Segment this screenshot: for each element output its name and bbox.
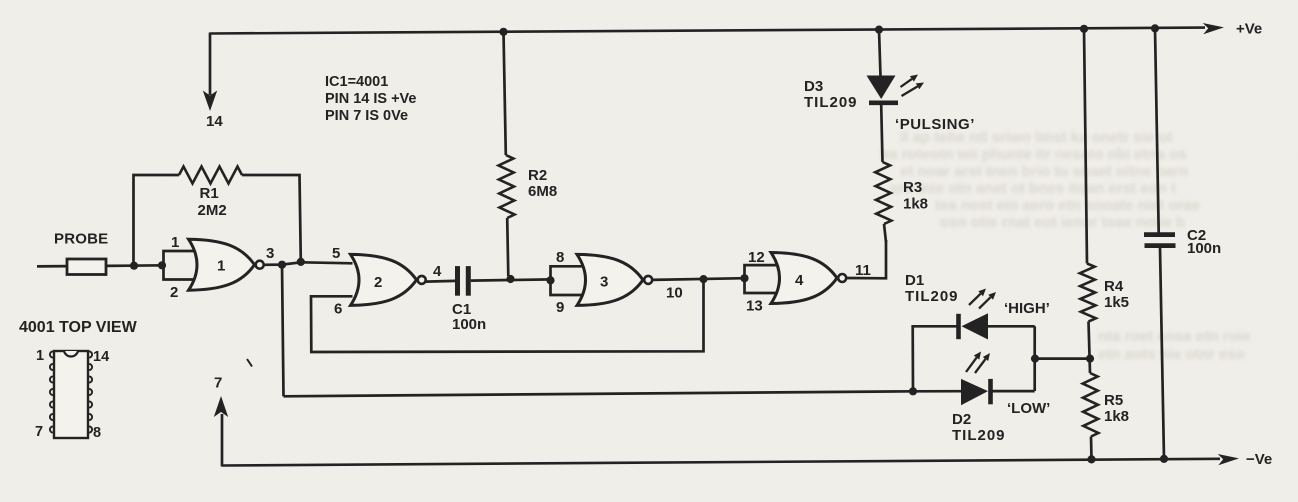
gate 3 input bracket — [551, 266, 584, 295]
junction node pin10 feedback — [699, 275, 707, 283]
svg-text:2: 2 — [374, 274, 382, 291]
svg-text:100n: 100n — [1187, 240, 1221, 257]
op NOR gate U1d (4) — [771, 253, 837, 304]
svg-text:D1: D1 — [905, 272, 924, 289]
long wire to D2 LOW led — [284, 391, 914, 396]
svg-text:TIL209: TIL209 — [905, 288, 959, 305]
probe input wire — [37, 265, 68, 268]
svg-text:1: 1 — [217, 258, 225, 275]
svg-text:‘LOW’: ‘LOW’ — [1007, 400, 1050, 417]
wire C2 to -Ve — [1160, 248, 1164, 459]
resistor R2 6M8 — [504, 32, 506, 155]
LED D2 cathode bar — [988, 379, 993, 404]
svg-text:8: 8 — [93, 425, 101, 441]
wire R1 to gate1 output node — [242, 175, 301, 262]
probe series resistor (box) — [67, 259, 106, 275]
LED D1 light arrow 1 — [969, 289, 986, 306]
svg-text:13: 13 — [746, 298, 763, 315]
junction +Ve/R2 — [499, 28, 507, 36]
LED D1 triangle (points left) — [962, 313, 989, 339]
junction node pin3 — [278, 261, 286, 269]
wire LED tap to R4/R5 — [1035, 357, 1090, 360]
svg-text:sro tnie otn anet ot bnes itoa: sro tnie otn anet ot bnes itoan erst eon… — [890, 180, 1176, 197]
wire resistor to gate 1 inputs — [106, 264, 165, 267]
svg-text:‘PULSING’: ‘PULSING’ — [895, 116, 975, 133]
wire R5 to -Ve — [1090, 437, 1093, 460]
svg-text:1k5: 1k5 — [1104, 294, 1129, 311]
svg-text:1k8: 1k8 — [903, 196, 928, 213]
svg-text:8: 8 — [556, 249, 564, 266]
svg-text:7: 7 — [214, 375, 222, 392]
svg-text:4001 TOP VIEW: 4001 TOP VIEW — [19, 319, 138, 336]
svg-text:IC1=4001: IC1=4001 — [325, 74, 388, 90]
svg-text:1: 1 — [36, 348, 44, 364]
junction node probe/R1 — [130, 262, 138, 270]
right vertical of LED pair — [1033, 326, 1036, 391]
svg-text:7: 7 — [35, 424, 43, 440]
junction node gate1 inputs — [158, 261, 166, 269]
wire gate2 out to C1 — [426, 280, 456, 283]
LED D3 light arrows — [901, 75, 919, 88]
gate 4 input bracket — [745, 265, 778, 293]
svg-text:6: 6 — [334, 301, 342, 318]
gate 2 pin6 feedback wire — [311, 279, 704, 352]
svg-text:osn otie rnat eot ienor tsae n: osn otie rnat eot ienor tsae notie b — [940, 214, 1185, 231]
svg-text:+Ve: +Ve — [1236, 21, 1262, 38]
resistor R1 zigzag — [179, 167, 242, 184]
svg-text:R2: R2 — [528, 167, 547, 184]
svg-text:2M2: 2M2 — [198, 202, 227, 219]
wire gate4 out up to R3 — [847, 240, 886, 278]
LED D3 cathode bar — [869, 101, 898, 106]
svg-text:4: 4 — [795, 272, 804, 289]
junction node R4/R5 tap — [1086, 355, 1094, 363]
svg-text:TIL209: TIL209 — [952, 427, 1006, 444]
wire to D2 anode — [913, 390, 961, 393]
junction +Ve/D3 — [875, 26, 883, 34]
wire D3 to R3 — [881, 105, 882, 162]
svg-text:11: 11 — [855, 262, 871, 279]
wire R3 to gate4 output — [884, 224, 886, 242]
junction node LOW line — [909, 387, 917, 395]
pin 14 supply arrow — [203, 33, 217, 112]
svg-text:10: 10 — [666, 285, 683, 302]
svg-text:PIN 7 IS 0Ve: PIN 7 IS 0Ve — [325, 108, 408, 124]
LED D2 light arrows — [966, 352, 981, 373]
IC package 4001 top view — [19, 319, 138, 441]
svg-text:100n: 100n — [452, 316, 486, 333]
wire left vertical of LED pair — [913, 326, 958, 391]
svg-text:D3: D3 — [804, 78, 823, 95]
junction +Ve/C2 — [1151, 24, 1159, 32]
svg-text:1k8: 1k8 — [1104, 408, 1129, 425]
svg-text:ba roteotn wii phunte itr nesa: ba roteotn wii phunte itr nesato nbi etn… — [880, 146, 1187, 163]
svg-text:1: 1 — [171, 234, 179, 251]
svg-text:5: 5 — [332, 245, 340, 262]
junction node R1 right — [297, 258, 305, 266]
svg-text:etn aots nie otnr eso: etn aots nie otnr eso — [1098, 346, 1245, 363]
svg-text:14: 14 — [93, 349, 109, 365]
op NOR gate U1c (3) — [577, 254, 643, 305]
svg-text:‘HIGH’: ‘HIGH’ — [1004, 300, 1050, 317]
junction node gate4 inputs — [740, 274, 748, 282]
wire gate1 output to gate2 pin5 — [264, 262, 353, 265]
svg-text:4: 4 — [433, 263, 442, 280]
-Ve supply rail — [222, 459, 1220, 466]
LED D2 triangle (points right) — [961, 379, 988, 405]
resistor R1 2M2 feedback loop wires — [134, 175, 180, 266]
junction node LED tap — [1031, 355, 1039, 363]
svg-text:2: 2 — [170, 284, 178, 301]
resistor R5 1k8 — [1083, 373, 1099, 437]
wire gate3 out to gate4 — [653, 278, 746, 280]
svg-text:R1: R1 — [200, 185, 219, 202]
op NOR gate U1a (1) — [189, 239, 255, 290]
svg-text:TIL209: TIL209 — [804, 94, 858, 111]
svg-text:3: 3 — [600, 274, 608, 291]
svg-text:PROBE: PROBE — [54, 231, 108, 248]
svg-text:R4: R4 — [1104, 278, 1124, 295]
svg-text:−Ve: −Ve — [1246, 451, 1272, 468]
ghost bleed-through text right side — [880, 129, 1251, 363]
wire D2 to right vertical — [991, 390, 1035, 393]
wire R4 to R5 — [1089, 322, 1091, 374]
junction node R2 bottom — [506, 275, 514, 283]
svg-text:3: 3 — [266, 245, 274, 262]
svg-text:tea nost ein aero etn snoate n: tea nost ein aero etn snoate niet orae — [935, 197, 1200, 214]
-Ve rail arrowhead — [1218, 454, 1239, 465]
svg-text:et noar arst tnen brio tu snae: et noar arst tnen brio tu snaet oitne ba… — [900, 163, 1188, 180]
svg-text:9: 9 — [556, 299, 564, 316]
wire C1 to gate3 — [471, 279, 552, 280]
svg-text:R3: R3 — [903, 179, 922, 196]
junction +Ve/R4 — [1080, 25, 1088, 33]
junction -Ve/R5 — [1087, 455, 1095, 463]
svg-text:D2: D2 — [952, 411, 971, 428]
svg-text:PIN 14 IS +Ve: PIN 14 IS +Ve — [325, 91, 417, 107]
svg-text:R5: R5 — [1104, 392, 1123, 409]
svg-text:6M8: 6M8 — [528, 183, 557, 200]
LED D1 light arrow 2 — [979, 292, 996, 309]
resistor R3 1k8 — [875, 162, 891, 224]
svg-text:14: 14 — [206, 113, 223, 130]
capacitor C1 plates — [455, 266, 460, 296]
wire gate1 output down to LOW led line — [282, 265, 284, 397]
resistor R4 1k5 — [1080, 264, 1096, 322]
stray pen tick — [247, 359, 252, 367]
LED D1 cathode bar — [956, 314, 961, 339]
LED D3 TIL209 triangle — [867, 76, 896, 100]
svg-text:12: 12 — [748, 249, 765, 266]
wire D1 to right vertical — [988, 325, 1035, 328]
junction node gate3 inputs — [546, 276, 554, 284]
+Ve rail arrowhead — [1203, 23, 1224, 34]
svg-text:nta roet ensa otn roie: nta roet ensa otn roie — [1098, 328, 1251, 345]
gate 1 input bracket — [164, 251, 197, 280]
junction -Ve/C2 — [1160, 455, 1168, 463]
+Ve supply rail — [210, 28, 1205, 34]
pin 7 supply arrow — [214, 396, 228, 467]
capacitor C2 plates — [1144, 232, 1175, 237]
op NOR gate U1b (2) — [351, 254, 417, 305]
